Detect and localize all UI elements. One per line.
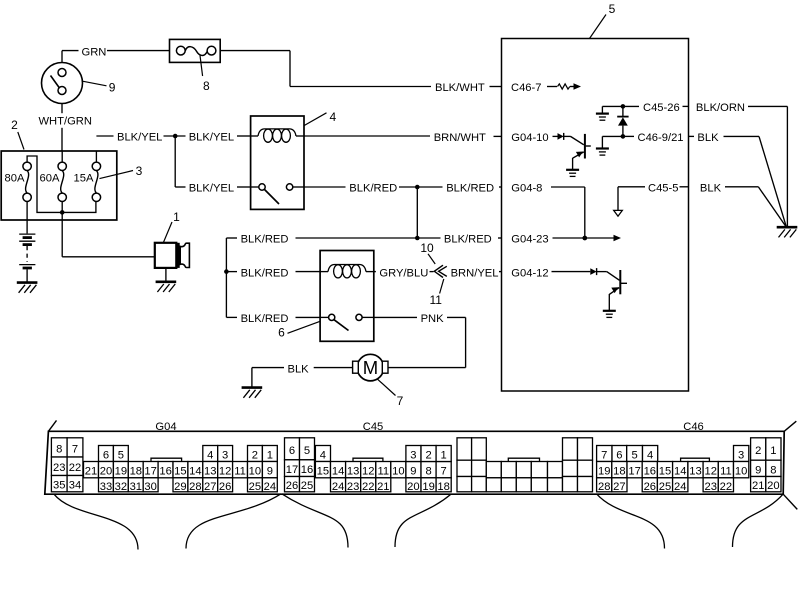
svg-text:BRN/WHT: BRN/WHT: [434, 132, 486, 144]
svg-text:13: 13: [689, 466, 701, 478]
svg-text:4: 4: [647, 450, 653, 462]
svg-text:19: 19: [115, 466, 127, 478]
svg-text:G04: G04: [155, 421, 176, 433]
svg-text:25: 25: [249, 481, 261, 493]
svg-text:C46-7: C46-7: [511, 82, 541, 94]
svg-text:11: 11: [720, 466, 732, 478]
svg-text:4: 4: [329, 110, 336, 124]
svg-text:12: 12: [219, 466, 231, 478]
svg-text:27: 27: [613, 481, 625, 493]
svg-text:5: 5: [304, 445, 310, 457]
svg-text:13: 13: [347, 466, 359, 478]
svg-text:BLK/ORN: BLK/ORN: [696, 102, 745, 114]
svg-text:1: 1: [173, 210, 180, 224]
svg-text:12: 12: [704, 466, 716, 478]
svg-text:16: 16: [159, 466, 171, 478]
svg-text:22: 22: [362, 481, 374, 493]
svg-text:31: 31: [130, 481, 142, 493]
svg-text:21: 21: [85, 466, 97, 478]
svg-text:M: M: [363, 357, 378, 378]
svg-text:14: 14: [332, 466, 344, 478]
svg-text:21: 21: [752, 480, 764, 492]
svg-text:32: 32: [115, 481, 127, 493]
svg-text:8: 8: [56, 443, 62, 455]
svg-text:6: 6: [278, 326, 285, 340]
svg-text:35: 35: [53, 480, 65, 492]
svg-text:1: 1: [267, 450, 273, 462]
svg-text:3: 3: [136, 164, 143, 178]
svg-text:8: 8: [425, 466, 431, 478]
svg-text:BLK/RED: BLK/RED: [444, 234, 492, 246]
svg-text:GRN: GRN: [82, 46, 107, 58]
svg-text:9: 9: [267, 466, 273, 478]
svg-text:11: 11: [429, 293, 442, 307]
svg-text:14: 14: [189, 466, 201, 478]
svg-text:BLK/RED: BLK/RED: [241, 267, 289, 279]
svg-text:BLK/YEL: BLK/YEL: [189, 132, 234, 144]
svg-text:7: 7: [601, 450, 607, 462]
svg-text:24: 24: [332, 481, 344, 493]
svg-text:26: 26: [219, 481, 231, 493]
svg-text:80A: 80A: [5, 172, 25, 184]
svg-text:18: 18: [437, 481, 449, 493]
svg-text:1: 1: [440, 450, 446, 462]
svg-text:9: 9: [109, 81, 116, 95]
svg-text:GRY/BLU: GRY/BLU: [379, 267, 428, 279]
svg-text:5: 5: [631, 450, 637, 462]
svg-text:15: 15: [659, 466, 671, 478]
svg-text:5: 5: [118, 450, 124, 462]
svg-text:19: 19: [422, 481, 434, 493]
svg-text:10: 10: [392, 466, 404, 478]
svg-text:BLK/RED: BLK/RED: [349, 183, 397, 195]
svg-text:22: 22: [720, 481, 732, 493]
svg-text:2: 2: [425, 450, 431, 462]
svg-text:3: 3: [738, 450, 744, 462]
svg-text:34: 34: [69, 480, 81, 492]
svg-text:6: 6: [103, 450, 109, 462]
svg-text:10: 10: [420, 241, 434, 255]
svg-text:26: 26: [286, 480, 298, 492]
svg-text:7: 7: [72, 443, 78, 455]
svg-text:20: 20: [407, 481, 419, 493]
svg-text:4: 4: [320, 450, 326, 462]
svg-text:WHT/GRN: WHT/GRN: [39, 116, 92, 128]
svg-text:21: 21: [377, 481, 389, 493]
svg-text:6: 6: [616, 450, 622, 462]
svg-text:BLK: BLK: [700, 183, 722, 195]
svg-text:19: 19: [598, 466, 610, 478]
svg-text:10: 10: [735, 466, 747, 478]
svg-text:18: 18: [613, 466, 625, 478]
svg-text:BLK: BLK: [288, 363, 310, 375]
svg-text:28: 28: [598, 481, 610, 493]
svg-text:G04-10: G04-10: [511, 132, 548, 144]
svg-text:9: 9: [410, 466, 416, 478]
svg-text:25: 25: [301, 480, 313, 492]
svg-text:C45: C45: [363, 421, 384, 433]
svg-text:C45-26: C45-26: [643, 102, 680, 114]
svg-text:15: 15: [174, 466, 186, 478]
svg-text:6: 6: [289, 445, 295, 457]
svg-text:8: 8: [203, 79, 210, 93]
svg-text:20: 20: [767, 480, 779, 492]
svg-text:4: 4: [207, 450, 213, 462]
svg-text:23: 23: [704, 481, 716, 493]
svg-text:30: 30: [144, 481, 156, 493]
svg-text:3: 3: [222, 450, 228, 462]
svg-text:29: 29: [174, 481, 186, 493]
svg-text:14: 14: [674, 466, 686, 478]
svg-text:1: 1: [770, 445, 776, 457]
svg-text:16: 16: [644, 466, 656, 478]
svg-text:7: 7: [440, 466, 446, 478]
svg-text:2: 2: [755, 445, 761, 457]
svg-text:60A: 60A: [40, 172, 60, 184]
svg-text:17: 17: [144, 466, 156, 478]
svg-text:15: 15: [317, 466, 329, 478]
svg-text:24: 24: [264, 481, 276, 493]
svg-text:5: 5: [609, 2, 616, 16]
svg-text:G04-8: G04-8: [511, 183, 542, 195]
svg-text:28: 28: [189, 481, 201, 493]
svg-text:11: 11: [377, 466, 389, 478]
svg-text:G04-12: G04-12: [511, 267, 548, 279]
svg-text:BLK/RED: BLK/RED: [446, 183, 494, 195]
svg-text:17: 17: [628, 466, 640, 478]
svg-text:33: 33: [100, 481, 112, 493]
svg-text:10: 10: [249, 466, 261, 478]
svg-text:7: 7: [397, 394, 404, 408]
svg-text:16: 16: [301, 464, 313, 476]
svg-text:BRN/YEL: BRN/YEL: [451, 267, 499, 279]
svg-text:BLK: BLK: [697, 132, 719, 144]
svg-text:22: 22: [69, 462, 81, 474]
svg-text:BLK/RED: BLK/RED: [241, 234, 289, 246]
svg-text:17: 17: [286, 464, 298, 476]
svg-text:2: 2: [252, 450, 258, 462]
svg-text:24: 24: [674, 481, 686, 493]
svg-text:9: 9: [755, 464, 761, 476]
svg-text:18: 18: [130, 466, 142, 478]
svg-text:15A: 15A: [74, 172, 94, 184]
svg-text:3: 3: [410, 450, 416, 462]
svg-text:2: 2: [11, 118, 18, 132]
svg-text:12: 12: [362, 466, 374, 478]
svg-text:PNK: PNK: [421, 313, 445, 325]
svg-text:26: 26: [644, 481, 656, 493]
svg-text:23: 23: [347, 481, 359, 493]
svg-text:13: 13: [204, 466, 216, 478]
svg-text:27: 27: [204, 481, 216, 493]
svg-text:BLK/YEL: BLK/YEL: [189, 183, 234, 195]
svg-text:BLK/YEL: BLK/YEL: [117, 132, 162, 144]
svg-text:BLK/WHT: BLK/WHT: [435, 82, 485, 94]
svg-text:23: 23: [53, 462, 65, 474]
svg-text:G04-23: G04-23: [511, 234, 548, 246]
svg-text:C46-9/21: C46-9/21: [638, 132, 684, 144]
svg-text:25: 25: [659, 481, 671, 493]
svg-text:11: 11: [234, 466, 246, 478]
svg-text:C46: C46: [683, 421, 704, 433]
svg-text:8: 8: [770, 464, 776, 476]
svg-text:C45-5: C45-5: [648, 183, 678, 195]
svg-text:BLK/RED: BLK/RED: [241, 313, 289, 325]
svg-text:20: 20: [100, 466, 112, 478]
